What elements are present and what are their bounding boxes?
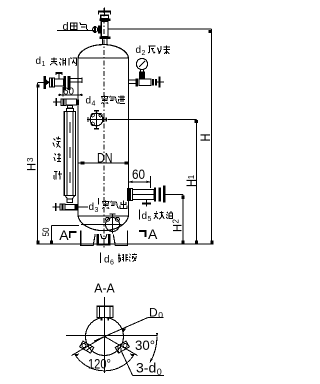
jin-ye valve outlet bold flange pair [64, 76, 67, 90]
svg-text:d: d [104, 255, 110, 266]
pressure gauge valve body [139, 79, 151, 85]
pressure gauge dial [136, 58, 147, 69]
jin-ye valve handwheel [56, 72, 63, 79]
dimension 60 (left) arrows [59, 94, 82, 96]
svg-text:3: 3 [26, 157, 35, 162]
svg-text:d: d [86, 96, 92, 107]
label 3-d0 underline [133, 374, 165, 376]
label 3-d0 text [136, 359, 162, 377]
dimension H2 vertical line [182, 195, 184, 245]
dimension D0 label underline [148, 316, 164, 318]
level gauge bottom nozzle stub into vessel [78, 206, 88, 208]
top head tangent weld line [78, 57, 129, 59]
section leg axis left [72, 337, 105, 356]
section marker A left flag [70, 232, 77, 238]
top valve left side port (flanged, end view) [93, 26, 102, 34]
dimension 60 (right) line [129, 181, 151, 183]
svg-text:D: D [149, 305, 158, 319]
bottom head tangent weld line [78, 215, 129, 217]
svg-text:0: 0 [157, 367, 162, 377]
svg-text:A: A [59, 227, 69, 243]
dimension D0 leader line [94, 318, 148, 342]
label ye-wei-ji (level gauge) vertical text [53, 137, 62, 180]
level gauge bottom connector [67, 199, 73, 203]
section drain pocket box [97, 306, 113, 320]
section marker A right flag [139, 231, 146, 237]
svg-text:1: 1 [187, 174, 196, 179]
vapor outlet valve right bold flange pair [154, 187, 156, 201]
dimension arc 30 deg arrows [150, 333, 158, 363]
dimension H bottom tick [211, 240, 214, 243]
label 3-d0 leader [122, 352, 133, 376]
vessel shell cylinder walls [78, 58, 129, 216]
svg-text:60: 60 [132, 166, 145, 182]
section support leg left pad [80, 341, 94, 353]
dimension H3 top tick [37, 84, 40, 87]
svg-text:d: d [63, 21, 69, 33]
dimension H1 top tick [195, 120, 198, 123]
label d3 zheng-qi-chu (vapor out) [89, 198, 127, 214]
section cut line A-A left extension [52, 225, 80, 227]
level gauge glass column inner tube lines [67, 112, 73, 196]
pressure gauge valve outlet capped end [157, 77, 164, 88]
pressure gauge cock (bold) [139, 72, 145, 79]
top valve V0 bottom flange [99, 36, 110, 39]
vapor outlet valve left flange pair at wall [127, 189, 129, 201]
label d2 ya-li-biao (pressure gauge) [136, 45, 171, 57]
svg-text:0: 0 [158, 310, 163, 320]
dimension H2 top tick [181, 196, 184, 199]
drain pocket bracket under bottom head [97, 234, 111, 246]
level gauge bottom taper [65, 196, 74, 199]
small base-height dimension line [51, 226, 53, 245]
dimension H1 bottom tick [195, 240, 198, 243]
jin-ye valve cone [46, 80, 49, 86]
dimension 60 (right) arrows [129, 181, 151, 183]
svg-text:2: 2 [142, 50, 146, 57]
svg-text:d: d [89, 202, 95, 213]
bottom front nozzle flange (end view) [104, 214, 122, 234]
section shell circle [86, 318, 124, 356]
vapor outlet pipe to corner [166, 194, 183, 196]
dimension 60 (left) line [58, 94, 83, 96]
svg-text:d: d [136, 45, 142, 56]
svg-text:50: 50 [41, 228, 52, 237]
svg-text:5: 5 [148, 216, 152, 223]
level gauge column center dashed line [69, 122, 71, 194]
dimension DN line [78, 162, 129, 164]
vessel vertical center line (dash-dot) [103, 8, 105, 249]
dimension arc 30 deg [150, 337, 157, 363]
svg-text:30°: 30° [135, 337, 155, 353]
label d4 zheng-qi-jin (vapor in) [86, 96, 126, 108]
level gauge bottom valve flange pair [60, 204, 62, 210]
dimension 60 (right) extension line [150, 176, 152, 188]
label d6 pai-ye (drain) [101, 253, 138, 267]
dimension H3 vertical line [37, 83, 39, 244]
level gauge glass column outer [64, 112, 75, 196]
support leg left (front view) [81, 231, 96, 246]
dimension arc 120 deg [75, 354, 135, 371]
svg-text:DN: DN [97, 150, 113, 166]
svg-text:2: 2 [172, 219, 181, 224]
jin-ye valve pipe end bar [43, 76, 45, 89]
svg-text:1: 1 [42, 61, 46, 68]
top valve V0 body [101, 21, 108, 37]
level gauge bottom valve pipe end cross [53, 203, 61, 211]
level gauge bottom valve wall flange [75, 204, 78, 211]
svg-text:H: H [27, 163, 39, 171]
pressure gauge stem [140, 69, 143, 72]
svg-text:3: 3 [95, 207, 99, 214]
vapor outlet valve body [132, 190, 154, 200]
svg-text:4: 4 [92, 101, 96, 108]
pressure gauge valve nozzle double line [129, 80, 136, 83]
level gauge top valve flange pair [61, 99, 63, 106]
section horizontal center line [66, 335, 157, 337]
support leg right (front view) [113, 231, 127, 246]
label d hui-qi (return gas) leader line [57, 30, 94, 32]
level gauge top valve pipe end cross [53, 98, 61, 106]
dimension H2 label [172, 219, 185, 233]
svg-text:d: d [142, 211, 148, 222]
svg-text:3-d: 3-d [136, 359, 156, 375]
level gauge top valve wall flange [77, 99, 80, 104]
label d5 fang-you (oil drain) [139, 210, 172, 224]
svg-text:6: 6 [110, 260, 114, 267]
section vertical center line [104, 297, 106, 373]
top valve V0 bonnet and gland [101, 15, 109, 19]
label d1 jin-ye-fa (inlet valve) [36, 56, 77, 68]
vessel top dished head [78, 45, 129, 58]
svg-text:A-A: A-A [94, 280, 115, 295]
svg-text:120°: 120° [88, 356, 111, 372]
vapor outlet pipe end bar [163, 186, 165, 203]
vessel bottom dished head [78, 216, 129, 231]
svg-text:d: d [36, 56, 42, 67]
jin-ye inlet valve: pipe to H3 corner [38, 81, 45, 83]
svg-text:60: 60 [63, 85, 74, 97]
dimension DN end ticks [81, 161, 85, 164]
vapor outlet valve body inner line [132, 194, 154, 196]
section leg axis right [105, 337, 138, 356]
jin-ye valve inlet flange pair [50, 78, 52, 87]
jin-ye valve body [55, 79, 64, 86]
level gauge bottom valve body [65, 204, 75, 209]
section support leg right pad [115, 341, 129, 353]
dimension H top tick [209, 30, 212, 33]
svg-text:H: H [173, 224, 185, 232]
dimension arc 120 deg arrows [75, 354, 134, 357]
ground base line [37, 243, 214, 245]
dimension H2 bottom tick [181, 240, 184, 243]
label d hui-qi text [63, 21, 89, 33]
dimension H3 bottom tick [36, 240, 39, 243]
pipe from top valve to right [108, 28, 211, 30]
jin-ye nozzle double line through wall [70, 78, 82, 83]
dimension D0 arrow at circle [122, 328, 127, 332]
dimension 60 (left, valve to wall) extension line [62, 87, 64, 97]
dimension H1 feature line from vapor inlet nozzle [108, 119, 197, 121]
section cut line through bottom head [81, 224, 104, 226]
oil drain port under valve [142, 200, 151, 207]
dimension H3 label [26, 157, 38, 171]
dimension H1 vertical line [196, 120, 198, 244]
pressure gauge valve right flange pair [152, 79, 154, 86]
top valve V0 handwheel [98, 8, 111, 16]
pressure gauge valve left flange [135, 78, 138, 86]
dimension H1 label [183, 174, 199, 187]
small base-height dimension ticks [35, 239, 37, 241]
svg-text:H: H [197, 134, 213, 142]
svg-text:A: A [148, 226, 158, 242]
vapor inlet nozzle (front view) circle and cross [87, 110, 107, 130]
top valve V0 neck nozzle to dome [102, 39, 107, 45]
level gauge top connector bolts [67, 106, 74, 112]
level gauge top valve body [66, 99, 77, 105]
dimension H vertical line [211, 29, 213, 244]
